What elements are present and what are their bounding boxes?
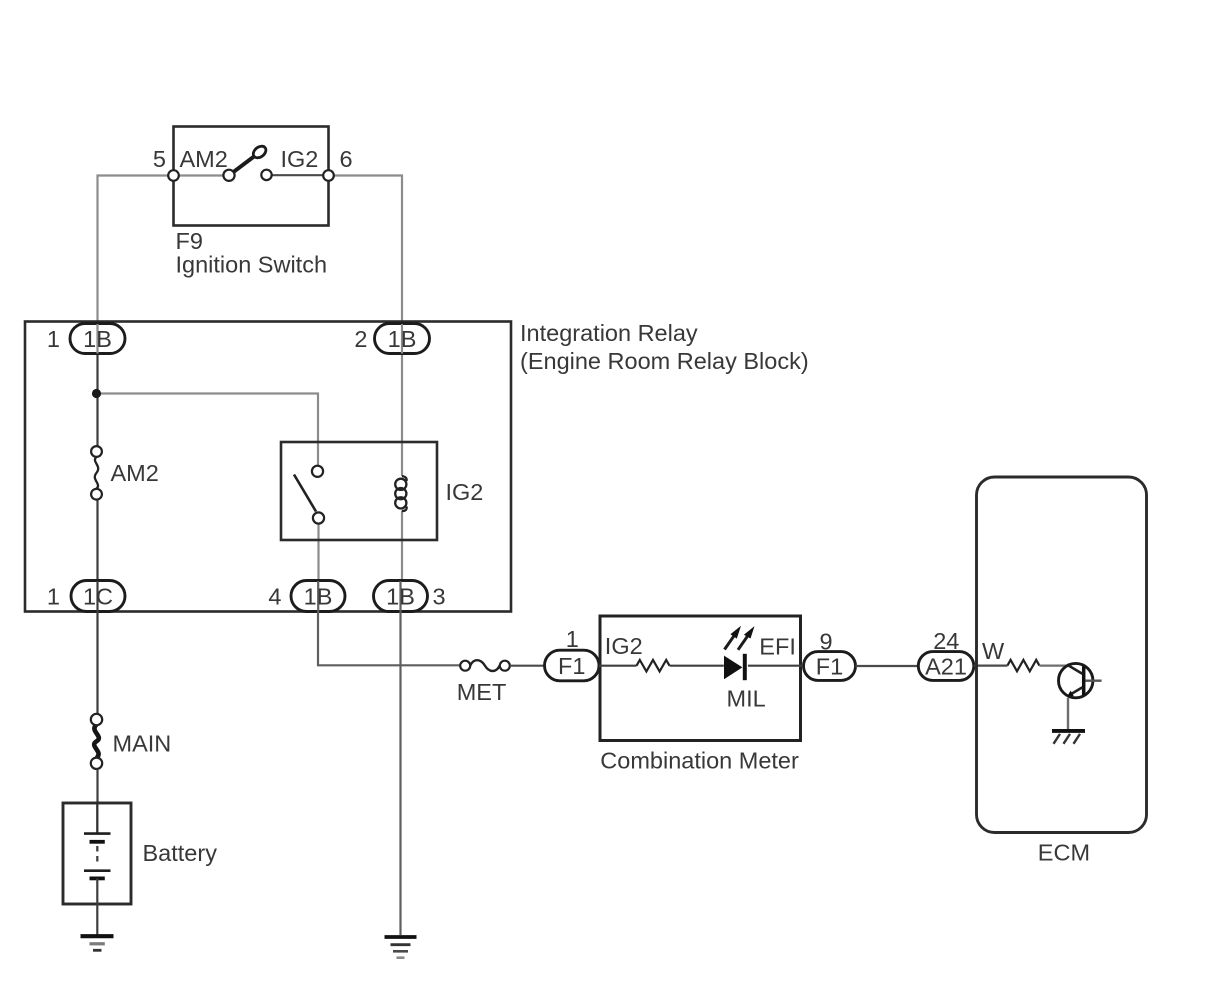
resistor (ECM internal) bbox=[1007, 660, 1039, 671]
contact circle: fixed contact bbox=[261, 170, 271, 180]
wire with resistor inside meter bbox=[599, 660, 802, 671]
battery box bbox=[63, 803, 131, 904]
svg-text:1: 1 bbox=[47, 584, 60, 610]
MIL indicator lamp (LED) bbox=[724, 654, 747, 680]
relay contact sub-box bbox=[281, 442, 437, 540]
relay terminal oval 1 (1B) bbox=[70, 324, 125, 354]
svg-text:F9: F9 bbox=[176, 228, 203, 254]
ECM connector oval A21 bbox=[918, 652, 974, 681]
ground (relay terminal 3) bbox=[385, 937, 417, 958]
wire: coil IG2 down to terminal 3 bbox=[401, 511, 403, 582]
svg-text:W: W bbox=[982, 638, 1005, 664]
combination meter box bbox=[600, 616, 801, 741]
ground (ECM, chassis) bbox=[1052, 731, 1085, 744]
svg-text:ECM: ECM bbox=[1038, 840, 1090, 866]
svg-text:Combination Meter: Combination Meter bbox=[600, 748, 799, 774]
relay terminal oval 3 (1B) bbox=[374, 581, 428, 612]
fuse MAIN (fusible link) bbox=[91, 714, 102, 769]
svg-text:24: 24 bbox=[933, 628, 959, 654]
wire: battery feed from ignition switch terminal 5 to relay terminal 1 bbox=[98, 176, 174, 324]
svg-text:3: 3 bbox=[433, 584, 446, 610]
contact circle: pin 5 bbox=[168, 170, 179, 181]
wire: ignition switch terminal 6 to relay terminal 2 bbox=[329, 176, 403, 325]
junction node on AM2 branch bbox=[92, 389, 101, 398]
svg-text:F1: F1 bbox=[558, 653, 585, 679]
wire: MAIN fuse to battery bbox=[96, 769, 98, 803]
wire: relay terminal 4 to MET fuse bbox=[318, 612, 461, 666]
wire: relay terminal 2 down to coil IG2 bbox=[401, 354, 403, 477]
svg-text:Integration Relay: Integration Relay bbox=[520, 320, 698, 346]
meter connector oval F1 pin 9 bbox=[804, 652, 856, 681]
svg-text:Ignition Switch: Ignition Switch bbox=[176, 252, 328, 278]
svg-text:1: 1 bbox=[566, 626, 579, 652]
battery internals bbox=[84, 804, 111, 878]
relay terminal oval 2 (1B) bbox=[375, 324, 430, 354]
svg-text:4: 4 bbox=[268, 584, 281, 610]
wire: relay terminal 3 down to ground bbox=[399, 612, 401, 936]
svg-text:1B: 1B bbox=[386, 584, 415, 610]
relay coil IG2 bbox=[395, 476, 406, 511]
svg-text:1B: 1B bbox=[304, 584, 333, 610]
switch lever (ignition switch movable contact arm) bbox=[233, 144, 268, 172]
contact circle: pin 6 bbox=[323, 170, 334, 181]
svg-text:Battery: Battery bbox=[143, 840, 218, 866]
relay switch top contact bbox=[312, 466, 323, 477]
wire: terminal 1C down to MAIN fuse bbox=[96, 612, 98, 715]
wire: branch from node to relay switch bbox=[97, 394, 319, 467]
svg-text:6: 6 bbox=[340, 146, 353, 172]
meter connector oval F1 pin 1 bbox=[545, 650, 600, 681]
wire: AM2 fuse down to terminal 1C bbox=[96, 499, 98, 581]
fuse MET bbox=[460, 660, 510, 671]
svg-text:EFI: EFI bbox=[759, 634, 796, 660]
svg-text:MIL: MIL bbox=[727, 686, 766, 712]
svg-text:A21: A21 bbox=[925, 653, 967, 679]
relay switch lever bbox=[294, 475, 316, 512]
contact circle: switch pole bbox=[223, 170, 234, 181]
relay terminal oval 1C bbox=[71, 581, 125, 612]
svg-text:AM2: AM2 bbox=[180, 146, 228, 172]
wire: MET fuse to meter connector F1 bbox=[510, 665, 545, 667]
ground (battery) bbox=[81, 936, 114, 950]
svg-text:2: 2 bbox=[354, 326, 367, 352]
ECM box bbox=[977, 477, 1147, 833]
svg-text:1: 1 bbox=[47, 326, 60, 352]
transistor Q (ECM output) bbox=[1059, 663, 1102, 697]
wire: transistor emitter to ground bbox=[1067, 698, 1069, 730]
relay terminal oval 4 (1B) bbox=[291, 581, 345, 612]
integration relay box bbox=[25, 322, 511, 612]
svg-text:1B: 1B bbox=[83, 326, 112, 352]
ignition switch F9 box bbox=[174, 127, 329, 226]
wire: battery negative to ground bbox=[96, 878, 98, 935]
svg-text:F1: F1 bbox=[816, 653, 843, 679]
wire: A21 into ECM bbox=[974, 664, 1008, 666]
svg-text:AM2: AM2 bbox=[111, 460, 159, 486]
wire: resistor to transistor bbox=[1039, 664, 1069, 666]
wire: terminal 5 to switch pole bbox=[178, 174, 224, 176]
fuse AM2 bbox=[91, 446, 102, 500]
svg-text:9: 9 bbox=[819, 629, 832, 655]
svg-text:IG2: IG2 bbox=[605, 633, 643, 659]
svg-text:1B: 1B bbox=[388, 326, 417, 352]
wire: relay terminal 1 down to AM2 fuse bbox=[96, 354, 98, 447]
svg-text:MET: MET bbox=[457, 679, 507, 705]
lamp arrows bbox=[725, 626, 755, 650]
wire: relay switch to terminal 4 bbox=[317, 524, 319, 582]
svg-text:(Engine Room Relay Block): (Engine Room Relay Block) bbox=[520, 348, 809, 374]
svg-text:1C: 1C bbox=[83, 584, 113, 610]
svg-text:IG2: IG2 bbox=[281, 146, 319, 172]
svg-text:5: 5 bbox=[153, 146, 166, 172]
svg-text:IG2: IG2 bbox=[446, 479, 484, 505]
svg-text:MAIN: MAIN bbox=[113, 731, 172, 757]
wire: switch throw to terminal 6 bbox=[271, 174, 324, 176]
relay switch bottom contact bbox=[313, 512, 324, 523]
wire: meter F1 to ECM connector A21 bbox=[856, 665, 919, 667]
